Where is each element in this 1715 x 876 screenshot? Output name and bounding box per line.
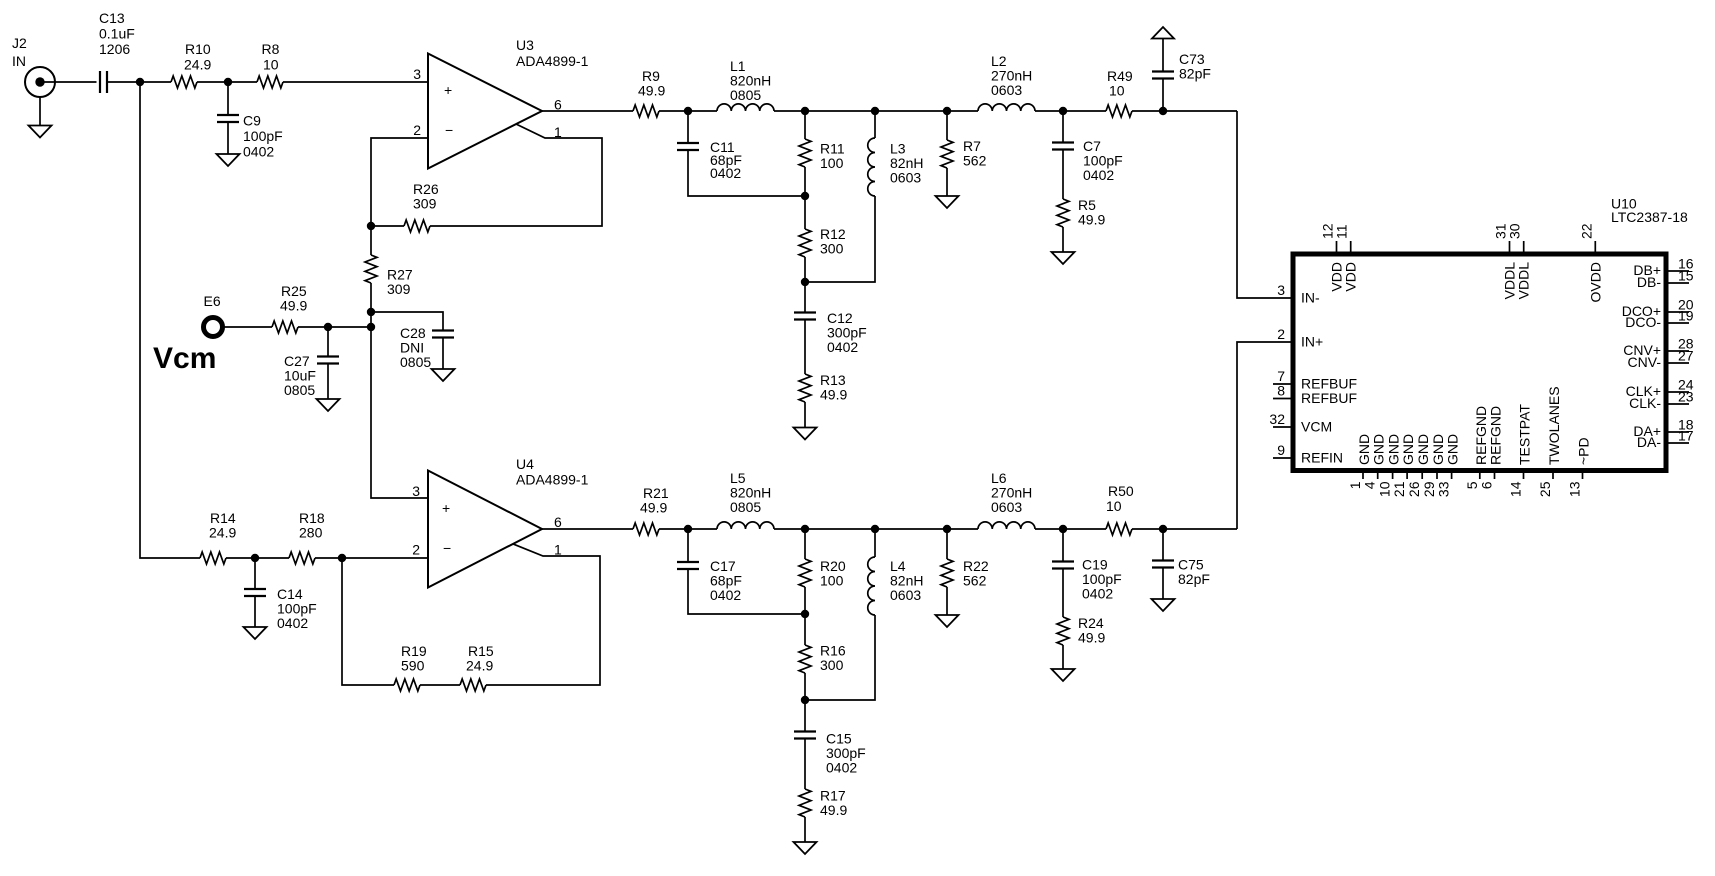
svg-text:309: 309 [387,281,411,297]
wire [371,225,404,227]
svg-text:5: 5 [1464,481,1480,489]
node [251,554,259,562]
inductor L1 [717,58,774,111]
resistor R9 [633,68,665,117]
svg-text:82pF: 82pF [1178,571,1210,587]
svg-text:0402: 0402 [827,339,858,355]
pin 2 IN+ [1277,326,1323,350]
capacitor C12 [794,310,867,355]
svg-text:8: 8 [1277,383,1285,399]
wire [1062,227,1064,252]
wire [1035,110,1106,112]
svg-text:32: 32 [1269,411,1285,427]
wire [227,122,229,154]
wire L4 [874,529,876,557]
capacitor C15 [794,731,866,776]
wire [342,558,394,685]
node [224,78,232,86]
wire [327,327,329,357]
svg-text:280: 280 [299,525,323,541]
IC U10 LTC2387-18 [1293,196,1688,471]
pin 5 REFGND [1464,406,1489,489]
pin 18 DA+ [1633,417,1693,440]
svg-text:~PD: ~PD [1576,437,1592,465]
resistor R20 [799,558,846,589]
svg-text:R50: R50 [1108,483,1134,499]
wire [227,82,229,115]
pin 6 REFGND [1479,406,1504,489]
svg-text:9: 9 [1277,442,1285,458]
resistor R17 [799,788,847,819]
pin 20 DCO+ [1622,297,1694,320]
svg-text:6: 6 [554,514,562,530]
svg-text:0402: 0402 [710,587,741,603]
ground [794,428,817,440]
pin 29 GND [1421,434,1446,497]
inductor L2 [978,53,1035,111]
wire [774,110,978,112]
resistor R49 [1106,68,1133,117]
svg-text:13: 13 [1567,481,1583,497]
inductor L6 [978,470,1035,529]
wire [1062,529,1064,562]
wire [197,81,257,83]
node [1159,525,1167,533]
node [684,107,692,115]
svg-text:CLK-: CLK- [1629,395,1661,411]
pin 32 VCM [1269,411,1332,435]
op-amp U4 [412,456,588,588]
node [1059,107,1067,115]
svg-text:U3: U3 [516,37,534,53]
svg-text:15: 15 [1678,268,1694,284]
wire [1162,39,1164,72]
svg-text:33: 33 [1436,481,1452,497]
pin 3 IN- [1277,282,1320,306]
node [871,525,879,533]
svg-text:6: 6 [554,97,562,113]
capacitor C13 [99,10,135,93]
node [943,525,951,533]
pin 15 DB- [1637,268,1694,291]
svg-text:−: − [443,540,451,556]
ground [1052,669,1075,681]
svg-text:49.9: 49.9 [640,500,667,516]
node [324,323,332,331]
ground [244,627,267,639]
ground [432,369,455,381]
svg-text:49.9: 49.9 [1078,630,1105,646]
svg-text:VDDL: VDDL [1516,262,1532,300]
wire C17 [687,529,689,562]
wire [226,557,289,559]
svg-text:24.9: 24.9 [184,57,211,73]
wire [1062,150,1064,200]
svg-text:0603: 0603 [890,587,921,603]
svg-text:3: 3 [412,483,420,499]
wire [140,82,200,558]
node [684,525,692,533]
resistor R25 [272,283,307,333]
wire [107,81,171,83]
wire [223,326,273,328]
svg-text:0402: 0402 [243,144,274,160]
pin 27 CNV- [1628,348,1694,371]
svg-text:TWOLANES: TWOLANES [1546,386,1562,465]
inductor L4 [868,557,924,615]
wire C11 [687,111,689,143]
svg-text:49.9: 49.9 [820,387,847,403]
pin 14 TESTPAT [1508,404,1533,497]
pin 28 CNV+ [1623,336,1694,359]
svg-text:0603: 0603 [991,499,1022,515]
wire pin1 feedback [486,544,600,685]
svg-text:GND: GND [1371,434,1387,465]
wire [1062,111,1064,143]
wire [442,338,444,370]
wire [1035,528,1106,530]
svg-text:100: 100 [820,155,844,171]
wire [688,150,805,196]
svg-text:17: 17 [1678,428,1694,444]
ground [936,196,959,208]
wire vcm to U4 [371,327,428,498]
svg-text:REFBUF: REFBUF [1301,390,1357,406]
pin 31 VDDL [1493,223,1518,299]
svg-text:GND: GND [1445,434,1461,465]
pin 19 DCO- [1625,308,1694,331]
pin 11 VDD [1334,224,1359,291]
svg-text:562: 562 [963,153,987,169]
wire [1062,645,1064,669]
wire [1162,529,1164,561]
pin 30 VDDL [1507,223,1532,299]
svg-text:U4: U4 [516,456,534,472]
pin 7 REFBUF [1273,368,1357,392]
pin 21 GND [1391,434,1416,497]
pin 24 CLK+ [1626,377,1694,400]
resistor R8 [257,41,283,88]
capacitor C17 [677,558,742,603]
pin 22 OVDD [1578,223,1603,302]
node [801,696,809,704]
svg-text:300: 300 [820,241,844,257]
svg-text:+: + [444,82,452,98]
connector J2 [12,35,55,97]
svg-text:29: 29 [1421,481,1437,497]
capacitor C7 [1052,138,1123,183]
power arrow [1152,27,1174,39]
wire [1132,110,1237,112]
wire [370,283,372,327]
wire [946,587,948,615]
wire [804,817,806,842]
svg-text:GND: GND [1356,434,1372,465]
capacitor C27 [284,353,339,398]
wire [659,528,717,530]
svg-text:100pF: 100pF [243,128,283,144]
svg-text:0603: 0603 [890,170,921,186]
svg-text:J2: J2 [12,35,27,51]
node [943,107,951,115]
svg-text:49.9: 49.9 [280,298,307,314]
wire [804,320,806,375]
resistor R22 [941,558,989,589]
wire [39,97,41,126]
svg-text:DA-: DA- [1637,434,1661,450]
svg-text:0805: 0805 [730,87,761,103]
svg-text:100: 100 [820,573,844,589]
node [801,525,809,533]
wire [774,528,978,530]
wire [946,111,948,140]
svg-text:309: 309 [413,196,437,212]
wire pin1 feedback [430,124,602,226]
wire [659,110,717,112]
resistor R18 [289,510,325,564]
svg-text:REFGND: REFGND [1488,406,1504,465]
svg-text:DCO-: DCO- [1625,314,1661,330]
wire [804,402,806,428]
svg-text:1: 1 [554,542,562,558]
svg-text:23: 23 [1678,389,1694,405]
svg-text:2: 2 [412,542,420,558]
pin 23 CLK- [1629,389,1694,412]
node [871,107,879,115]
pin 26 GND [1406,434,1431,497]
svg-text:22: 22 [1578,223,1594,239]
node [1159,107,1167,115]
svg-text:+: + [442,500,450,516]
wire [1162,568,1164,600]
wire [327,364,329,400]
resistor R12 [799,226,846,257]
svg-text:0402: 0402 [710,165,741,181]
ground [936,615,959,627]
svg-text:24.9: 24.9 [466,658,493,674]
svg-text:E6: E6 [204,293,221,309]
wire [804,673,806,732]
wire C28 branch [371,312,443,331]
node [338,554,346,562]
svg-text:0402: 0402 [826,760,857,776]
ground [29,126,52,138]
node [367,222,375,230]
wire [283,81,428,83]
ground [1052,252,1075,264]
wire [254,596,256,627]
svg-text:4: 4 [1362,481,1378,489]
svg-text:300: 300 [820,657,844,673]
ground [317,399,340,411]
wire to IN- [1237,111,1293,298]
wire [804,587,806,645]
pin 16 DB+ [1633,256,1693,279]
resistor R16 [799,643,846,674]
svg-text:C13: C13 [99,10,125,26]
svg-text:CNV-: CNV- [1628,354,1662,370]
svg-text:R8: R8 [262,41,280,57]
resistor R5 [1057,197,1105,228]
wire [804,167,806,229]
ground [217,154,240,166]
wire [420,684,460,686]
svg-text:REFGND: REFGND [1473,406,1489,465]
pin 10 GND [1377,434,1402,497]
wire [315,557,428,559]
svg-text:3: 3 [1277,282,1285,298]
node [136,78,144,86]
svg-text:0805: 0805 [400,354,431,370]
wire [688,569,805,614]
op-amp U3 [413,37,588,169]
capacitor C9 [217,113,283,160]
wire [1162,79,1164,112]
resistor R7 [941,138,987,169]
wire [1062,569,1064,618]
resistor R24 [1057,615,1105,646]
pin 4 GND [1362,434,1387,489]
svg-text:IN+: IN+ [1301,334,1323,350]
wire [298,326,371,328]
svg-text:REFIN: REFIN [1301,450,1343,466]
wire to IN+ [1237,342,1293,529]
resistor R14 [200,510,236,564]
wire [946,168,948,196]
resistor R13 [799,372,847,403]
wire [254,558,256,589]
svg-text:14: 14 [1508,481,1524,497]
resistor R27 [365,255,413,297]
svg-text:27: 27 [1678,348,1694,364]
svg-text:10: 10 [263,57,279,73]
node [367,308,375,316]
resistor R15 [460,643,494,691]
capacitor C14 [244,586,317,631]
svg-text:VCM: VCM [1301,419,1332,435]
wire [805,196,875,282]
resistor R19 [394,643,427,691]
capacitor C73 [1152,51,1211,82]
svg-text:49.9: 49.9 [638,83,665,99]
node [801,192,809,200]
svg-text:IN: IN [12,53,26,69]
wire [946,529,948,559]
svg-text:0805: 0805 [284,382,315,398]
svg-text:562: 562 [963,573,987,589]
resistor R21 [633,485,669,535]
capacitor C19 [1052,557,1122,602]
pin 12 VDD [1320,223,1345,291]
svg-text:10: 10 [1109,83,1125,99]
svg-text:19: 19 [1678,308,1694,324]
svg-text:ADA4899-1: ADA4899-1 [516,472,589,488]
resistor R26 [404,181,439,232]
svg-text:590: 590 [401,658,425,674]
svg-text:GND: GND [1415,434,1431,465]
svg-text:1206: 1206 [99,41,130,57]
wire [805,615,875,700]
inductor L3 [868,138,924,196]
svg-text:0.1uF: 0.1uF [99,26,135,42]
node [801,107,809,115]
svg-text:6: 6 [1479,481,1495,489]
pin 8 REFBUF [1273,383,1357,407]
capacitor C28 [400,325,454,370]
resistor R10 [171,41,211,88]
node [367,323,375,331]
resistor R50 [1106,483,1134,535]
svg-text:0402: 0402 [277,615,308,631]
wire [1132,528,1237,530]
capacitor C11 [677,139,742,181]
wire [542,110,633,112]
svg-text:30: 30 [1507,223,1523,239]
wire [804,529,806,559]
ground [1152,599,1175,611]
capacitor C75 [1152,557,1210,588]
svg-text:−: − [445,122,453,138]
svg-text:R10: R10 [185,41,211,57]
pin 17 DA- [1637,428,1694,451]
wire [804,257,806,312]
pin 13 ~PD [1567,437,1592,497]
svg-text:0805: 0805 [730,499,761,515]
node [801,278,809,286]
svg-text:VDD: VDD [1343,262,1359,292]
wire [804,739,806,790]
pin 1 GND [1347,434,1372,489]
svg-text:GND: GND [1400,434,1416,465]
svg-text:21: 21 [1391,481,1407,497]
svg-text:2: 2 [1277,326,1285,342]
svg-text:0402: 0402 [1082,586,1113,602]
resistor R11 [799,139,845,171]
svg-text:49.9: 49.9 [820,802,847,818]
pin 9 REFIN [1273,442,1343,466]
svg-text:0402: 0402 [1083,167,1114,183]
svg-text:24.9: 24.9 [209,525,236,541]
svg-text:11: 11 [1334,224,1350,239]
wire [804,111,806,139]
svg-text:49.9: 49.9 [1078,212,1105,228]
svg-text:10: 10 [1106,498,1122,514]
svg-text:0603: 0603 [991,82,1022,98]
wire [542,528,633,530]
svg-text:ADA4899-1: ADA4899-1 [516,53,589,69]
wire L3 [874,111,876,138]
wire pin2 [371,138,428,226]
svg-text:3: 3 [413,66,421,82]
svg-text:82pF: 82pF [1179,66,1211,82]
svg-text:LTC2387-18: LTC2387-18 [1611,209,1688,225]
svg-text:25: 25 [1537,481,1553,497]
inductor L5 [717,470,774,529]
svg-text:OVDD: OVDD [1587,262,1603,302]
svg-text:1: 1 [1347,481,1363,489]
svg-text:DB-: DB- [1637,274,1661,290]
svg-text:GND: GND [1430,434,1446,465]
svg-text:IN-: IN- [1301,290,1320,306]
node [1059,525,1067,533]
wire [370,226,372,255]
svg-text:Vcm: Vcm [153,342,216,375]
svg-text:C9: C9 [243,113,261,129]
pin 25 TWOLANES [1537,386,1562,497]
wire [40,81,97,83]
node [801,610,809,618]
ground [794,842,817,854]
